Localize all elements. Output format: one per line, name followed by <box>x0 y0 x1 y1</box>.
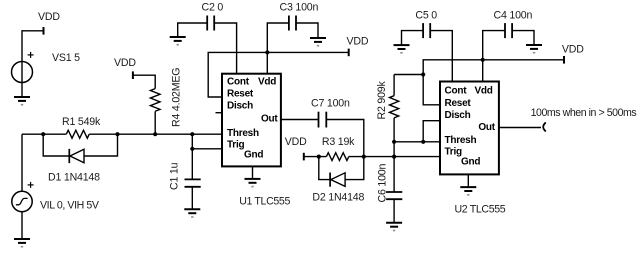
diode D2 <box>330 173 345 187</box>
node Trig tap on rail <box>190 132 194 136</box>
capacitor C2 <box>207 16 214 31</box>
svg-text:Disch: Disch <box>227 101 253 112</box>
resistor R3 <box>326 153 348 161</box>
wire R4 bottom to rail <box>154 111 156 134</box>
ground (C2) <box>170 37 186 45</box>
svg-text:Trig: Trig <box>227 139 244 150</box>
svg-text:VDD: VDD <box>562 44 584 56</box>
capacitor C5 <box>423 23 430 38</box>
svg-text:Cont: Cont <box>445 86 468 97</box>
ground (C3) <box>310 38 326 46</box>
svg-text:VDD: VDD <box>114 57 136 69</box>
wire Thresh2 line <box>394 141 440 143</box>
wire VDD flag to R4 <box>133 75 155 88</box>
wire rail to U1 Trig <box>192 134 222 149</box>
capacitor C3 <box>289 16 296 31</box>
ground (U2 Gnd pin) <box>467 174 469 187</box>
svg-text:Vdd: Vdd <box>475 86 493 97</box>
VDD power flag (R4) <box>132 71 134 79</box>
wire D1 branch <box>43 134 117 156</box>
ground (C1) <box>184 209 200 217</box>
svg-text:R1 549k: R1 549k <box>62 116 101 128</box>
IC U2 TLC555 <box>440 82 499 175</box>
wire R3 right to U2 Trig <box>349 156 440 158</box>
VDD power flag (R3) <box>303 153 305 161</box>
wire C2 right to U1 Cont <box>214 23 236 73</box>
svg-text:Vdd: Vdd <box>258 77 276 88</box>
svg-text:R4 4.02MEG: R4 4.02MEG <box>171 68 183 127</box>
svg-text:Gnd: Gnd <box>244 150 263 161</box>
ground (C5) <box>394 45 410 53</box>
node Disch2 junction <box>421 140 425 144</box>
capacitor C6 <box>386 192 402 199</box>
capacitor C1 <box>185 179 201 186</box>
ground (VIL) <box>14 239 30 247</box>
svg-text:U1 TLC555: U1 TLC555 <box>239 196 290 208</box>
wire VS1 top to VDD flag <box>22 31 44 62</box>
wire U2 Out to output pin <box>499 127 541 129</box>
wire C6 to ground <box>393 199 395 223</box>
ground (C4) <box>526 45 542 53</box>
capacitor C4 <box>505 23 512 38</box>
node R3 left junction <box>317 155 321 159</box>
resistor R1 <box>66 130 89 138</box>
svg-text:VDD: VDD <box>38 11 60 23</box>
svg-text:U2 TLC555: U2 TLC555 <box>455 204 506 216</box>
svg-text:VS1 5: VS1 5 <box>52 52 80 64</box>
node R2 top junction <box>421 72 425 76</box>
VDD power flag (VS1) <box>43 27 45 35</box>
VDD rail (U2) <box>423 60 564 105</box>
ground (U1 Gnd pin) <box>252 166 254 179</box>
node A (left D1 junction) <box>41 132 45 136</box>
ground (C6) <box>386 223 402 231</box>
VDD rail (U1) <box>208 52 349 97</box>
wire C1 to ground <box>191 187 193 210</box>
pin stub Disch (U1) <box>216 112 223 114</box>
svg-text:D1 1N4148: D1 1N4148 <box>48 171 100 183</box>
wire C3 right to ground <box>296 23 318 38</box>
node R3 right junction <box>362 155 366 159</box>
svg-text:C3 100n: C3 100n <box>280 2 319 14</box>
svg-text:VDD: VDD <box>347 36 369 48</box>
svg-text:VDD: VDD <box>285 136 307 148</box>
svg-text:Cont: Cont <box>227 77 250 88</box>
voltage source VS1 <box>12 52 34 97</box>
VDD power flag (rail U1) <box>348 49 350 57</box>
node R2 bottom / Thresh junction <box>392 140 396 144</box>
wire input source to main rail <box>21 134 23 191</box>
resistor R4 <box>150 89 160 112</box>
svg-text:Reset: Reset <box>227 89 254 100</box>
wire C5 left to ground <box>402 31 424 45</box>
IC U1 TLC555 <box>222 74 281 167</box>
svg-text:Disch: Disch <box>445 110 471 121</box>
wire U1 Out to C7 <box>281 119 319 121</box>
svg-text:Thresh: Thresh <box>445 135 477 146</box>
node R4/rail junction <box>153 132 157 136</box>
svg-text:Trig: Trig <box>445 146 462 157</box>
ground (VS1) <box>14 97 30 105</box>
svg-text:Out: Out <box>478 122 495 133</box>
svg-text:C4 100n: C4 100n <box>494 9 533 21</box>
svg-text:100ms when in > 500ms: 100ms when in > 500ms <box>531 107 637 119</box>
VDD power flag (rail U2) <box>563 56 565 64</box>
wire main rail to U1 Thresh <box>22 133 222 135</box>
wire D2 branch <box>319 157 364 180</box>
svg-text:C6 100n: C6 100n <box>377 164 389 203</box>
wire Trig node down to C1 <box>191 149 193 180</box>
wire U2 Disch to Thresh line <box>423 121 440 142</box>
signal source VIL <box>12 182 34 239</box>
capacitor C7 <box>319 112 327 128</box>
resistor R2 <box>390 75 399 192</box>
svg-text:VIL 0, VIH 5V: VIL 0, VIH 5V <box>40 200 100 212</box>
wire C7 right down to trig2 node <box>326 120 364 157</box>
node Trig/C1 junction <box>190 147 194 151</box>
wire VDD flag to R3 <box>304 156 327 158</box>
node Trig2/C6 junction <box>392 155 396 159</box>
svg-text:D2 1N4148: D2 1N4148 <box>312 192 364 204</box>
svg-text:Reset: Reset <box>445 98 472 109</box>
node C3/Vdd junction <box>265 50 269 54</box>
wire C5 right to U2 Cont <box>430 31 452 81</box>
svg-text:Thresh: Thresh <box>227 128 259 139</box>
svg-text:R3 19k: R3 19k <box>322 136 355 148</box>
wire C4 right to ground <box>512 31 534 45</box>
svg-text:R2 909k: R2 909k <box>376 81 388 120</box>
wire R2 top to rail drop <box>394 74 423 76</box>
wire C3 left to Vdd node <box>267 23 289 73</box>
svg-text:Gnd: Gnd <box>461 156 480 167</box>
svg-text:C2 0: C2 0 <box>202 2 224 14</box>
output terminal <box>543 122 546 131</box>
svg-text:Out: Out <box>261 114 278 125</box>
wire C4 left to Vdd2 node <box>483 31 505 81</box>
svg-text:C7 100n: C7 100n <box>311 98 350 110</box>
node C4/Vdd2 junction <box>481 58 485 62</box>
svg-text:C1 1u: C1 1u <box>169 162 181 190</box>
wire C2 left to ground <box>178 23 208 37</box>
node B (right D1 junction) <box>115 132 119 136</box>
svg-text:C5 0: C5 0 <box>415 9 437 21</box>
diode D1 <box>69 149 84 163</box>
